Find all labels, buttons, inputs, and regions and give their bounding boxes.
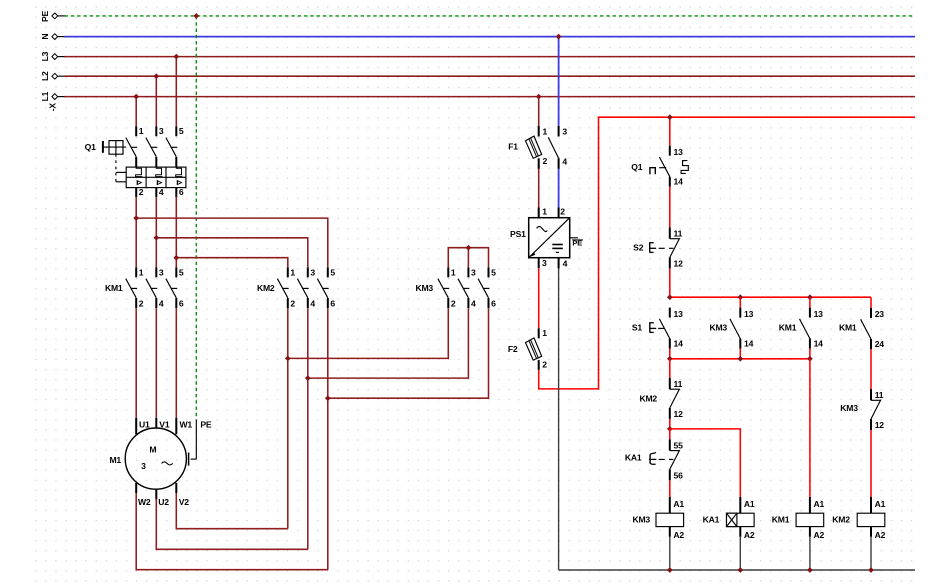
power supply PS1 terminals top (538, 208, 540, 218)
svg-text:6: 6 (179, 187, 184, 197)
contactor KM3 pole 5-6 (478, 267, 496, 308)
svg-text:14: 14 (814, 339, 824, 349)
svg-text:S2: S2 (633, 242, 644, 252)
svg-text:KM2: KM2 (257, 283, 275, 293)
wire KM3.2 to node (288, 308, 449, 358)
junction at 136.2,218.1 (134, 216, 139, 221)
svg-text:KM2: KM2 (832, 515, 850, 525)
junction at 538.7,96.6 (536, 94, 541, 99)
contactor KM2 pole 3-4 (297, 267, 315, 308)
svg-text:12: 12 (875, 420, 885, 430)
svg-text:M1: M1 (109, 455, 121, 465)
svg-text:A1: A1 (744, 499, 755, 509)
svg-text:1: 1 (139, 267, 144, 277)
contactor KM2 pole 1-2 (277, 267, 295, 308)
fuse-switch F1 switch pole 3-4 (558, 126, 560, 137)
wire tap L1 to KM2.5 (136, 218, 328, 267)
svg-text:3: 3 (562, 126, 567, 136)
contactor KM3 pole 1-2 (438, 267, 456, 308)
control rail 3 (670, 358, 810, 360)
svg-text:1: 1 (542, 207, 547, 217)
wire PE drop to motor (195, 16, 197, 420)
svg-text:KM2: KM2 (639, 393, 657, 403)
svg-text:A1: A1 (814, 499, 825, 509)
breaker Q1 bottom terminal (135, 188, 137, 198)
svg-text:23: 23 (875, 309, 885, 319)
svg-text:Q1: Q1 (85, 142, 96, 152)
junction at 287.8,358.4 (285, 356, 290, 361)
svg-text:4: 4 (159, 187, 164, 197)
wire S2 to rail 2 (669, 268, 671, 297)
breaker Q1 pole 5-6 (166, 126, 184, 167)
svg-text:2: 2 (542, 359, 547, 369)
svg-text:S1: S1 (632, 323, 643, 333)
svg-text:KM3: KM3 (840, 403, 858, 413)
svg-text:3: 3 (542, 258, 547, 268)
motor M1 circle (125, 428, 186, 489)
svg-text:3: 3 (471, 267, 476, 277)
junction at 669.8,570.0 (667, 568, 672, 573)
svg-text:PE: PE (40, 11, 50, 23)
svg-text:N: N (40, 34, 50, 40)
wire KM2.4 down to motor U2 run (307, 308, 309, 549)
svg-text:Q1: Q1 (631, 162, 642, 172)
svg-text:KM1: KM1 (839, 323, 857, 333)
junction at 176.3,257.7 (174, 255, 179, 260)
svg-text:24: 24 (875, 339, 885, 349)
svg-text:1: 1 (290, 267, 295, 277)
svg-text:PE: PE (200, 419, 212, 429)
junction at 669.8,297.2 (667, 295, 672, 300)
wire KM1 aux to rail 3 (809, 349, 811, 359)
wire motor U2 to KM2.4 run (155, 489, 157, 499)
junction at 558.6,36.6 (556, 34, 561, 39)
bottom control rail 0V (559, 569, 915, 571)
wire L2 to Q1 pole 3 (155, 76, 157, 126)
power supply PS1 AC symbol (537, 226, 548, 231)
svg-text:KM3: KM3 (709, 323, 727, 333)
svg-text:A2: A2 (673, 530, 684, 540)
svg-text:5: 5 (491, 267, 496, 277)
svg-text:KM1: KM1 (772, 515, 790, 525)
coil KM1 (772, 497, 825, 570)
svg-text:V1: V1 (159, 419, 170, 429)
svg-text:11: 11 (875, 390, 884, 400)
coil KM2 (832, 497, 885, 570)
wire F1.4 to PS1.2 (558, 169, 560, 208)
breaker Q1 thermal element (176, 167, 183, 177)
svg-text:U1: U1 (139, 419, 150, 429)
breaker Q1 operator handle (102, 141, 104, 153)
power supply PS1 DC symbol (552, 244, 563, 246)
svg-text:KM1: KM1 (779, 323, 797, 333)
svg-text:13: 13 (744, 309, 754, 319)
junction at 136.2,96.6 (134, 94, 139, 99)
wire Q1.2 to KM1.1 (135, 197, 137, 267)
svg-text:12: 12 (674, 258, 684, 268)
wire rail2 to KM1 aux (809, 297, 811, 307)
svg-text:3: 3 (159, 267, 164, 277)
wire PS1.3 to F2 (538, 268, 540, 328)
svg-text:4: 4 (471, 298, 476, 308)
power supply PS1 terminals bottom (538, 258, 540, 268)
wire F1.2 to PS1.1 (538, 169, 540, 208)
junction at 740.3,297.2 (738, 295, 743, 300)
svg-text:3: 3 (141, 461, 146, 471)
svg-text:4: 4 (563, 259, 568, 269)
contactor KM1 pole 3-4 (146, 267, 164, 308)
svg-text:2: 2 (560, 207, 565, 217)
svg-text:PS1: PS1 (510, 229, 526, 239)
svg-text:W2: W2 (138, 497, 151, 507)
junction at 809.9,297.2 (807, 295, 812, 300)
wire KM3.3 riser (467, 248, 469, 268)
svg-text:A1: A1 (673, 499, 684, 509)
svg-text:M: M (149, 445, 156, 455)
svg-text:V2: V2 (179, 497, 190, 507)
svg-text:2: 2 (451, 298, 456, 308)
wire L3 to Q1 pole 5 (175, 57, 177, 127)
wire Q1 aux to S2 (669, 187, 671, 228)
svg-text:55: 55 (674, 441, 684, 451)
power supply PS1 box (529, 218, 570, 258)
svg-text:14: 14 (674, 177, 684, 187)
junction at 809.9,570.0 (807, 568, 812, 573)
junction at 740.3,570.0 (738, 568, 743, 573)
svg-text:1: 1 (543, 126, 548, 136)
svg-text:14: 14 (744, 339, 754, 349)
wire node to KA1 coil (670, 429, 741, 497)
svg-text:2: 2 (139, 298, 144, 308)
junction at 809.9,358.8 (807, 356, 812, 361)
wire motor W2 to KM2.6 run (135, 483, 137, 493)
junction at 176.3,56.6 (174, 54, 179, 59)
junction at 156.3,237.8 (154, 235, 159, 240)
svg-text:5: 5 (330, 267, 335, 277)
wire L1 to Q1 pole 1 (135, 97, 137, 127)
wire F2 to control rail feed (539, 117, 915, 389)
svg-text:2: 2 (290, 298, 295, 308)
fuse F2 (538, 328, 540, 338)
breaker Q1 magnetic trip symbol (136, 180, 138, 185)
wire L1 to F1 fuse (538, 97, 540, 126)
junction at 669.8,117.2 (667, 115, 672, 120)
svg-text:14: 14 (674, 339, 684, 349)
breaker Q1 bottom terminal (175, 188, 177, 198)
wire KM2 NC to node (669, 419, 671, 429)
svg-text:2: 2 (543, 156, 548, 166)
svg-text:KA1: KA1 (703, 515, 720, 525)
wire tap L3 to KM2.1 (176, 258, 287, 268)
wire control rail to Q1 aux (669, 117, 671, 146)
junction at 871.0,570.0 (869, 568, 874, 573)
contactor KM1 pole 5-6 (166, 267, 184, 308)
svg-text:13: 13 (674, 309, 684, 319)
wire KM2.2 down to motor V2 run (287, 308, 289, 529)
wire rail3 to KM1 coil (809, 359, 811, 497)
svg-text:KM3: KM3 (632, 515, 650, 525)
svg-text:KM3: KM3 (415, 283, 433, 293)
svg-text:5: 5 (179, 126, 184, 136)
wire KM1.2 to motor U1 (135, 308, 137, 418)
wire star bridge above KM3 (448, 248, 488, 268)
wire KM1.4 to motor V1 (155, 308, 157, 418)
wire KM2.6 down to motor W2 run (327, 308, 329, 570)
contactor KM1 pole 1-2 (126, 267, 144, 308)
wire node to KA1 contact (669, 429, 671, 439)
svg-text:F2: F2 (508, 344, 518, 354)
svg-text:L2: L2 (40, 71, 50, 81)
breaker Q1 magnetic trip symbol (156, 180, 158, 185)
breaker Q1 thermal element (156, 167, 163, 177)
motor PE terminal wire (195, 420, 197, 459)
svg-text:KM1: KM1 (105, 283, 123, 293)
svg-text:4: 4 (562, 157, 567, 167)
wire KM3.6 to node (328, 308, 489, 398)
breaker Q1 linkage dashed (115, 154, 117, 182)
wire rail3 to KM2 NC (669, 359, 671, 378)
wire KM3.4 to node (308, 308, 469, 378)
wire KM3 NC to KM2 coil (870, 430, 872, 497)
wire KM1 24 to KM3 NC (870, 349, 872, 389)
svg-text:A2: A2 (744, 530, 755, 540)
fuse-switch F1 fuse pole 1-2 (538, 126, 540, 137)
svg-text:12: 12 (674, 409, 684, 419)
contactor KM2 pole 5-6 (317, 267, 335, 308)
wire rail2 to KM3 aux (739, 297, 741, 307)
wire motor V2 to KM2.2 run (175, 483, 177, 493)
svg-text:4: 4 (159, 298, 164, 308)
svg-text:13: 13 (674, 147, 684, 157)
svg-text:A2: A2 (814, 530, 825, 540)
wire rail2 corner down to KM1 23-24 (870, 297, 872, 308)
wire KA1 contact to KM3 coil (669, 480, 671, 497)
svg-text:-X: -X (48, 103, 58, 112)
breaker Q1 pole 1-2 (126, 126, 144, 167)
svg-text:KA1: KA1 (625, 453, 642, 463)
svg-text:11: 11 (674, 229, 683, 239)
svg-text:4: 4 (310, 298, 315, 308)
svg-text:L1: L1 (40, 91, 50, 101)
svg-text:W1: W1 (180, 419, 193, 429)
svg-text:1: 1 (542, 328, 547, 338)
svg-text:F1: F1 (508, 142, 518, 152)
junction at 669.8,358.8 (667, 356, 672, 361)
svg-text:U2: U2 (158, 497, 169, 507)
breaker Q1 magnetic trip symbol (176, 180, 178, 185)
wire PS1.4 to bottom rail (558, 268, 560, 570)
wire KM3 aux to rail 3 (739, 349, 741, 359)
contactor KM3 pole 3-4 (458, 267, 476, 308)
svg-text:L3: L3 (40, 51, 50, 61)
svg-text:A1: A1 (875, 499, 886, 509)
svg-text:5: 5 (179, 267, 184, 277)
wire Q1.6 to KM1.5 (175, 197, 177, 267)
junction at 156.3,76.2 (154, 74, 159, 79)
svg-text:A2: A2 (875, 530, 886, 540)
breaker Q1 thermal overload box (126, 167, 186, 188)
breaker Q1 thermal element (136, 167, 143, 177)
control rail 2 (670, 296, 871, 298)
svg-text:1: 1 (451, 267, 456, 277)
junction at 307.8,378.1 (305, 376, 310, 381)
breaker Q1 pole 3-4 (146, 126, 164, 167)
junction at 468.4,247.7 (466, 245, 471, 250)
junction at 196.3,15.9 (194, 13, 199, 18)
wire S1 to rail 3 (669, 349, 671, 359)
junction at 740.3,358.8 (738, 356, 743, 361)
svg-text:6: 6 (179, 298, 184, 308)
breaker Q1 bottom terminal (155, 188, 157, 198)
svg-text:11: 11 (674, 379, 683, 389)
coil KA1 (703, 497, 755, 570)
svg-text:1: 1 (139, 126, 144, 136)
wire N to F1 switch (558, 37, 560, 126)
power supply PS1 PE stub (570, 237, 578, 239)
svg-text:13: 13 (814, 309, 824, 319)
svg-text:6: 6 (330, 298, 335, 308)
svg-text:2: 2 (139, 187, 144, 197)
svg-text:3: 3 (159, 126, 164, 136)
svg-text:56: 56 (674, 470, 684, 480)
wire Q1.4 to KM1.3 (155, 197, 157, 267)
svg-text:6: 6 (491, 298, 496, 308)
wire KM1.6 to motor W1 (175, 308, 177, 418)
wire tap L2 to KM2.3 (156, 238, 307, 268)
svg-text:3: 3 (310, 267, 315, 277)
junction at 669.8,428.9 (667, 426, 672, 431)
coil KM3 (632, 497, 684, 570)
junction at 327.8,398.2 (325, 396, 330, 401)
